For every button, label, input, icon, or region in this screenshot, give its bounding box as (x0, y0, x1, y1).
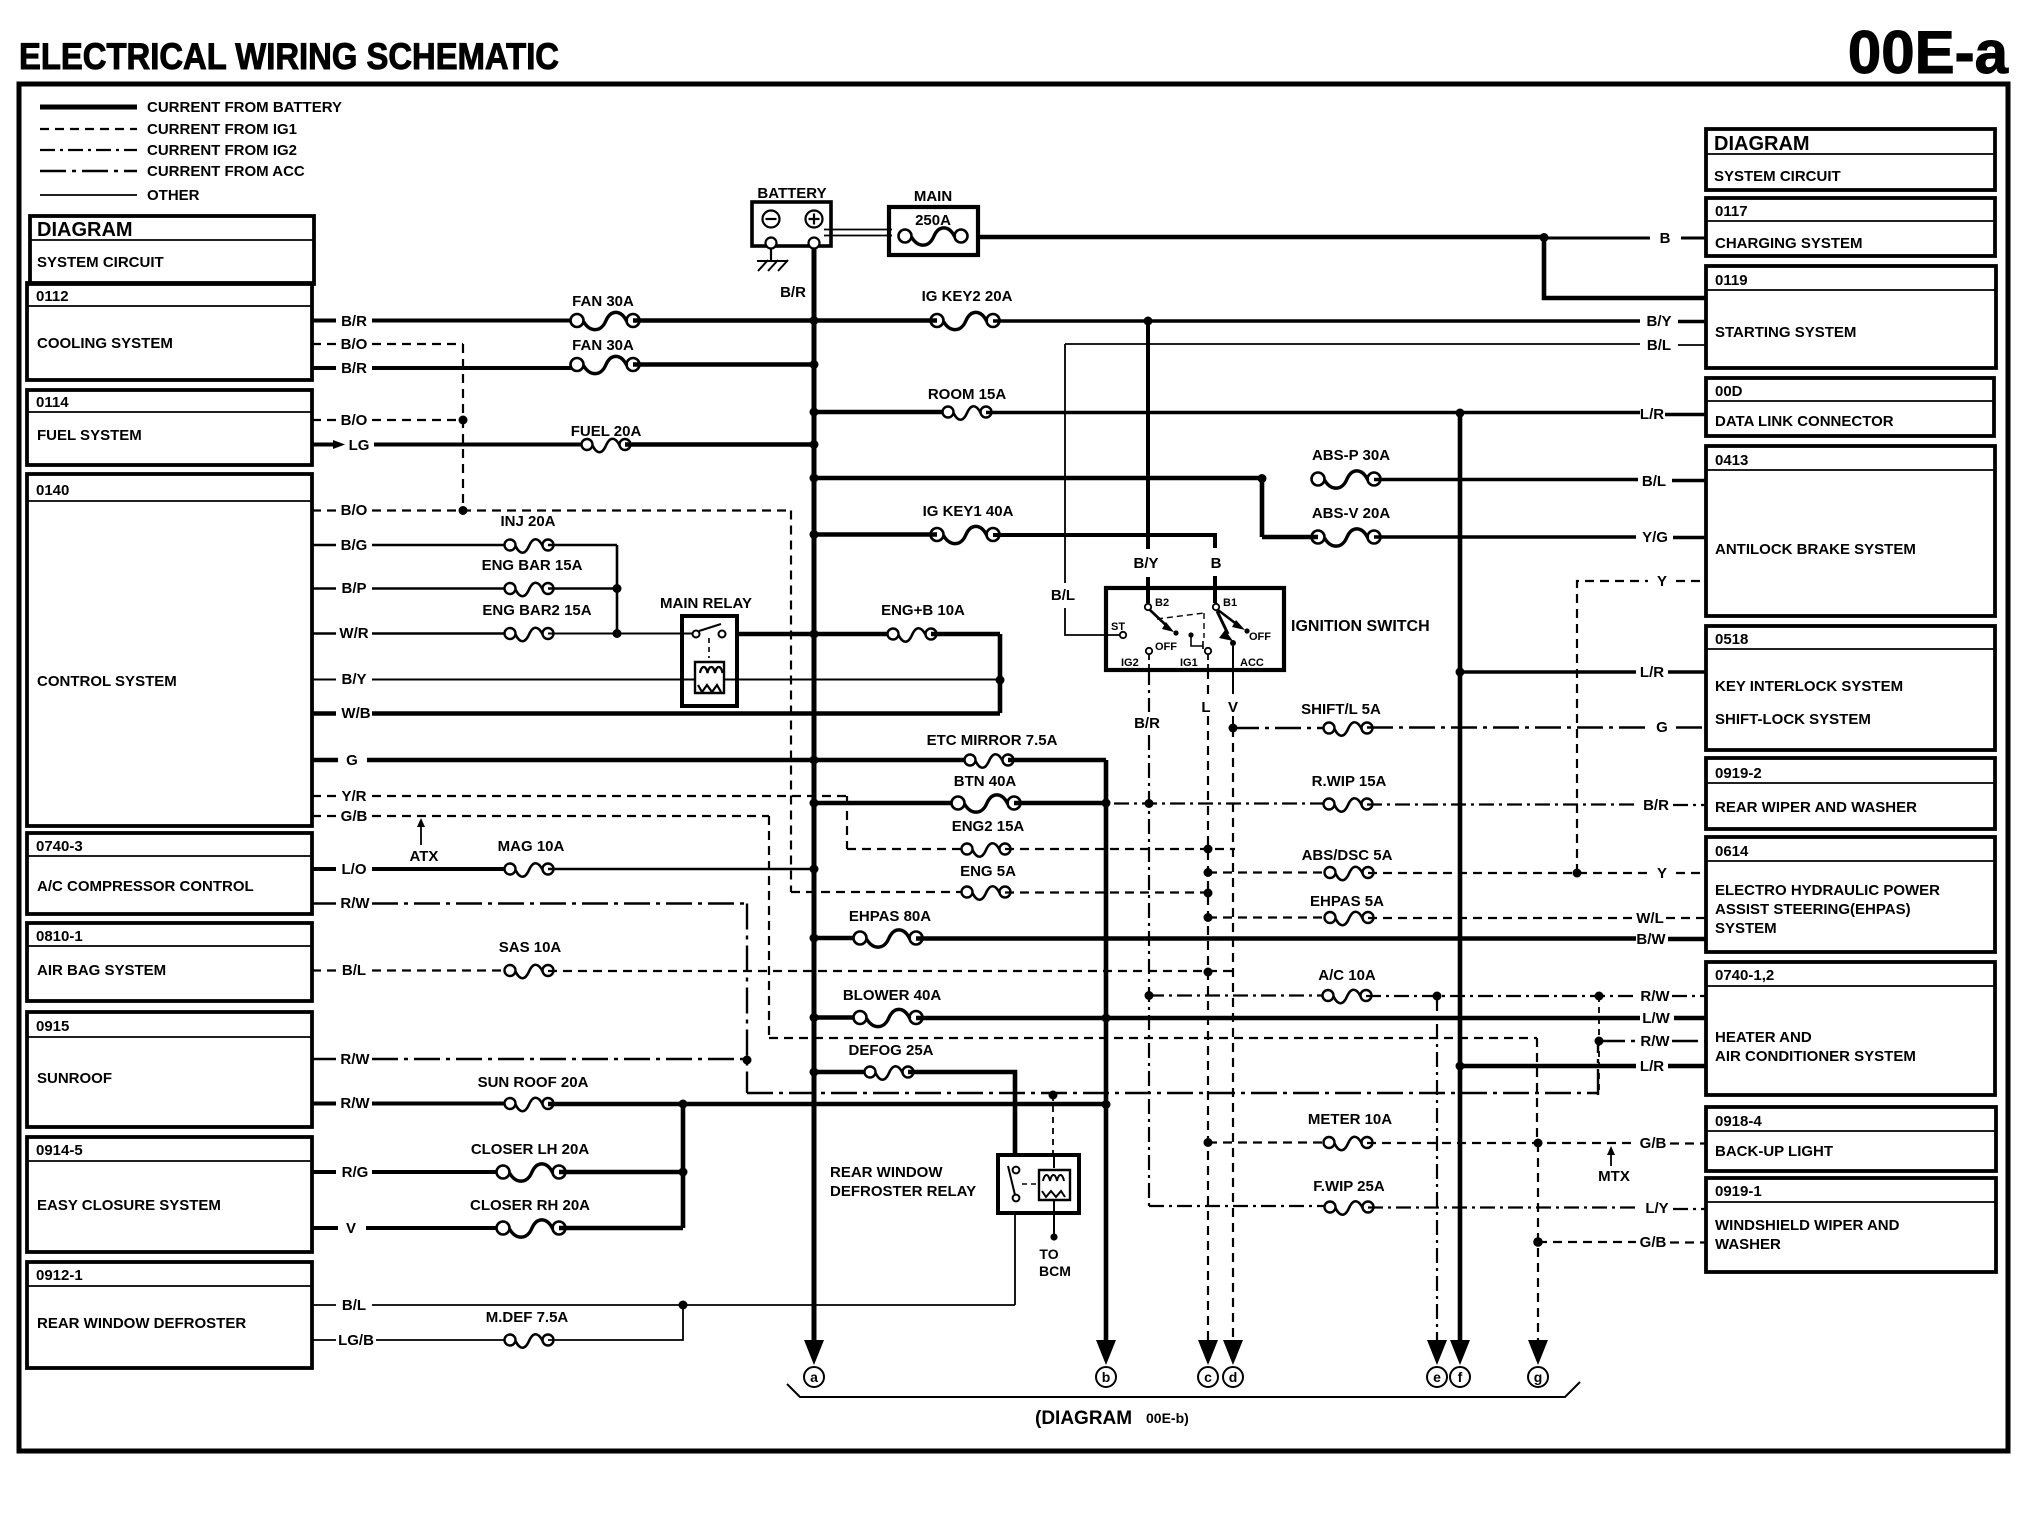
wire B/O dashed vertical link (462, 344, 464, 510)
battery (752, 185, 831, 249)
legend text (147, 99, 342, 204)
legend line: other (40, 194, 137, 196)
svg-text:B/W: B/W (1636, 931, 1666, 948)
svg-text:SYSTEM CIRCUIT: SYSTEM CIRCUIT (37, 254, 164, 271)
arrow a (804, 1340, 824, 1387)
svg-text:B/L: B/L (342, 962, 366, 979)
wire B/L vertical to ignition ST (1065, 344, 1120, 635)
wire B/O dashed vertical to ENG 5A (790, 511, 792, 893)
wire BLOWER 40A feed (814, 1015, 860, 1020)
wire W/L to ehpas system (1368, 917, 1707, 919)
svg-text:G/B: G/B (1640, 1135, 1667, 1152)
svg-text:MAG 10A: MAG 10A (498, 838, 565, 855)
svg-text:EHPAS 5A: EHPAS 5A (1310, 893, 1384, 910)
svg-text:ROOM 15A: ROOM 15A (928, 386, 1007, 403)
svg-text:0919-1: 0919-1 (1715, 1183, 1762, 1200)
svg-text:REAR WINDOW: REAR WINDOW (830, 1164, 943, 1181)
svg-text:CHARGING SYSTEM: CHARGING SYSTEM (1715, 235, 1863, 252)
svg-text:R/W: R/W (340, 1095, 370, 1112)
node junction ig key1 / battery (810, 530, 819, 539)
svg-text:Y/R: Y/R (341, 788, 366, 805)
node junction abs-p / abs-v (1258, 474, 1267, 483)
svg-text:ENG 5A: ENG 5A (960, 863, 1016, 880)
svg-text:0740-3: 0740-3 (36, 838, 83, 855)
wire R/G closer lh (312, 1170, 505, 1174)
svg-text:0140: 0140 (36, 482, 69, 499)
box 00D DATA LINK CONNECTOR (1706, 378, 1994, 436)
svg-text:SYSTEM: SYSTEM (1715, 920, 1777, 937)
svg-text:R/W: R/W (340, 1051, 370, 1068)
svg-text:CONTROL SYSTEM: CONTROL SYSTEM (37, 673, 177, 690)
svg-text:IG1: IG1 (1180, 657, 1198, 669)
node junction relay output / battery (810, 630, 819, 639)
svg-text:TO: TO (1039, 1246, 1058, 1262)
relay MAIN RELAY (660, 595, 752, 706)
svg-text:DIAGRAM: DIAGRAM (37, 219, 133, 241)
svg-text:B/G: B/G (341, 537, 368, 554)
wire R/W second to heater system (1599, 1040, 1707, 1042)
svg-text:B/L: B/L (342, 1297, 366, 1314)
node junction mdef riser (679, 1301, 688, 1310)
fuse MAIN 250A (889, 188, 978, 255)
node junction a/c / ig2 (1145, 991, 1154, 1000)
svg-text:c: c (1204, 1369, 1212, 1385)
box 0915 SUNROOF (27, 1012, 312, 1127)
wire B branch corner into starting system (1544, 238, 1707, 298)
wire B/L rear defroster (312, 1304, 1015, 1306)
node junction r/w second (1595, 1037, 1604, 1046)
wire BTN feed (814, 801, 960, 806)
node junction ehpas80/battery (810, 934, 819, 943)
svg-text:L/O: L/O (342, 861, 367, 878)
legend line: current from ACC (40, 170, 137, 172)
svg-text:MAIN: MAIN (914, 188, 952, 205)
wire L ig1 dashed vertical to arrow c (1207, 670, 1209, 694)
arrow f (1450, 1340, 1470, 1387)
node junction MAG / battery (810, 865, 819, 874)
svg-text:a: a (810, 1369, 818, 1385)
box DIAGRAM / SYSTEM CIRCUIT (left) (30, 216, 314, 284)
svg-text:L: L (1201, 699, 1210, 716)
wire R/W sunroof dash-dot (312, 1058, 747, 1060)
node junction fuel/battery (810, 440, 819, 449)
box 0117 CHARGING SYSTEM (1706, 198, 1995, 256)
svg-text:FUEL 20A: FUEL 20A (571, 423, 642, 440)
svg-text:Y/G: Y/G (1642, 529, 1668, 546)
wire V acc vertical to arrow d (1232, 670, 1234, 694)
wire B/Y ig key2 output to starting system (993, 319, 1707, 323)
box 0114 FUEL SYSTEM (27, 390, 312, 465)
svg-text:SHIFT-LOCK SYSTEM: SHIFT-LOCK SYSTEM (1715, 711, 1871, 728)
svg-text:FUEL SYSTEM: FUEL SYSTEM (37, 427, 142, 444)
node junction eng bar2 (613, 629, 622, 638)
svg-text:B/O: B/O (341, 502, 368, 519)
svg-text:HEATER AND: HEATER AND (1715, 1029, 1812, 1046)
wire R/W riser (746, 904, 748, 1094)
node B/O junction 1 (459, 416, 468, 425)
svg-text:0112: 0112 (36, 288, 69, 305)
left column system boxes (27, 216, 314, 1368)
node junction eng5 / ig1 (1204, 889, 1213, 898)
wire W/B (312, 711, 1000, 716)
svg-text:CLOSER RH 20A: CLOSER RH 20A (470, 1197, 590, 1214)
svg-text:W/R: W/R (339, 625, 368, 642)
svg-text:SAS 10A: SAS 10A (499, 939, 562, 956)
node junction fan1/battery (810, 316, 819, 325)
legend line: current from IG2 (40, 149, 137, 151)
wire L/O to MAG fuse (312, 867, 510, 871)
box 0518 KEY INTERLOCK / SHIFT-LOCK (1706, 626, 1995, 750)
node junction l/r heater (1456, 1062, 1465, 1071)
node junction meter / ig1 (1204, 1138, 1213, 1147)
svg-text:CLOSER LH 20A: CLOSER LH 20A (471, 1141, 590, 1158)
node junction y riser (1573, 869, 1582, 878)
svg-text:B/R: B/R (1134, 715, 1160, 732)
svg-text:LG: LG (349, 437, 370, 454)
node junction blower / b vertical (1102, 1014, 1111, 1023)
svg-text:METER 10A: METER 10A (1308, 1111, 1392, 1128)
wire B/O fuel dashed (312, 419, 463, 421)
svg-text:L/Y: L/Y (1645, 1200, 1668, 1217)
svg-text:B/L: B/L (1642, 473, 1666, 490)
svg-text:V: V (346, 1220, 356, 1237)
wire R/W acc run to right (747, 1092, 1598, 1095)
svg-text:STARTING SYSTEM: STARTING SYSTEM (1715, 324, 1856, 341)
wire B ig key1 output corner to ignition B1 (993, 535, 1215, 603)
wire B/R ig2 dash-dot vertical (1148, 670, 1150, 712)
svg-text:ABS-P 30A: ABS-P 30A (1312, 447, 1390, 464)
svg-text:ELECTRO HYDRAULIC POWER: ELECTRO HYDRAULIC POWER (1715, 882, 1940, 899)
MTX annotation arrow (1598, 1146, 1630, 1185)
svg-text:L/R: L/R (1640, 664, 1664, 681)
box 0919-2 REAR WIPER AND WASHER (1706, 758, 1995, 829)
svg-text:b: b (1102, 1369, 1111, 1385)
node junction room/battery (810, 408, 819, 417)
box DIAGRAM / SYSTEM CIRCUIT (right) (1706, 129, 1995, 190)
wire EHPAS 80A feed (814, 936, 860, 941)
node junction coil return (996, 676, 1005, 685)
node junction G line / battery vertical (810, 756, 819, 765)
svg-text:G: G (1656, 719, 1668, 736)
box 0919-1 WINDSHIELD WIPER AND WASHER (1706, 1178, 1996, 1272)
svg-text:IG KEY1 40A: IG KEY1 40A (923, 503, 1014, 520)
svg-text:g: g (1534, 1369, 1543, 1385)
node junction sunroof to b line (1102, 1100, 1111, 1109)
wire B label stub to charging system (1544, 237, 1707, 240)
wire L/R to heater system (1460, 1064, 1707, 1069)
arrow b (1096, 1340, 1116, 1387)
wire coil to junction (725, 679, 1000, 681)
svg-text:FAN 30A: FAN 30A (572, 337, 634, 354)
wire Y to ehpas system (1368, 872, 1707, 874)
wire closer riser vertical (681, 1104, 686, 1228)
svg-text:REAR WINDOW DEFROSTER: REAR WINDOW DEFROSTER (37, 1315, 246, 1332)
wire L/R heavy vertical to arrow f (1458, 413, 1463, 1348)
wire LG/B to M.DEF fuse (312, 1339, 510, 1341)
wire G/B dashed with ATX arrow (312, 815, 769, 817)
node junction r/w riser top (1595, 992, 1604, 1001)
wire B/W to ehpas system (916, 936, 1707, 941)
svg-text:B/R: B/R (1643, 797, 1669, 814)
svg-text:R/G: R/G (342, 1164, 369, 1181)
wire ENG 5A dashed run (791, 891, 967, 893)
wire L/R to key interlock system (1460, 670, 1707, 673)
node junction g/b windshield (1533, 1237, 1543, 1247)
wire G/B riser down (768, 816, 770, 1038)
svg-text:B/R: B/R (780, 284, 806, 301)
svg-text:Y: Y (1657, 573, 1667, 590)
svg-text:MAIN RELAY: MAIN RELAY (660, 595, 752, 612)
arrow d (1223, 1340, 1243, 1387)
relay REAR WINDOW DEFROSTER RELAY (830, 1155, 1079, 1279)
svg-text:DATA LINK CONNECTOR: DATA LINK CONNECTOR (1715, 413, 1894, 430)
svg-text:0518: 0518 (1715, 631, 1748, 648)
node junction closer lh (679, 1168, 688, 1177)
svg-text:BTN 40A: BTN 40A (954, 773, 1017, 790)
svg-text:BATTERY: BATTERY (757, 185, 826, 202)
svg-text:ETC MIRROR 7.5A: ETC MIRROR 7.5A (927, 732, 1058, 749)
svg-text:0413: 0413 (1715, 452, 1748, 469)
svg-text:ENG2 15A: ENG2 15A (952, 818, 1025, 835)
svg-text:ENG BAR2 15A: ENG BAR2 15A (482, 602, 591, 619)
svg-text:B: B (1211, 555, 1222, 572)
node junction btn/battery (810, 799, 819, 808)
wire L/R room output to data link connector (986, 413, 1707, 415)
svg-text:ABS/DSC 5A: ABS/DSC 5A (1302, 847, 1393, 864)
svg-text:F.WIP 25A: F.WIP 25A (1313, 1178, 1385, 1195)
svg-text:MTX: MTX (1598, 1168, 1630, 1185)
svg-text:0614: 0614 (1715, 843, 1749, 860)
wire Y/G to antilock brake system (1374, 535, 1707, 539)
node B/O junction 2 (459, 506, 468, 515)
wire B/R cooling fan 1 (312, 319, 573, 323)
arrow g (1528, 1340, 1548, 1387)
svg-text:ST: ST (1111, 621, 1125, 633)
node junction abs feed / battery (810, 474, 819, 483)
wire G/B dashed vertical to arrow g (1537, 1038, 1538, 1348)
svg-text:B/Y: B/Y (1133, 555, 1158, 572)
svg-text:OFF: OFF (1249, 631, 1271, 643)
wire B/R cooling fan 2 (312, 366, 573, 370)
svg-text:FAN 30A: FAN 30A (572, 293, 634, 310)
svg-text:B: B (1660, 230, 1671, 247)
node junction B/Y vertical (1144, 317, 1153, 326)
svg-text:B/Y: B/Y (1646, 313, 1671, 330)
wire heavy vertical to arrow b (1104, 760, 1109, 1348)
node junction btn / b vertical (1102, 799, 1111, 808)
legend line: current from IG1 (40, 128, 137, 130)
box 0918-4 BACK-UP LIGHT (1706, 1107, 1996, 1171)
arrow c (1198, 1340, 1218, 1387)
wire coil riser dashed to acc line (1052, 1095, 1054, 1155)
wire L/W to heater system (916, 1016, 1707, 1021)
svg-text:ATX: ATX (410, 848, 439, 865)
svg-text:SUNROOF: SUNROOF (37, 1070, 112, 1087)
node junction defog/battery (810, 1068, 819, 1077)
arrow e (1427, 1340, 1447, 1387)
svg-text:00E-a: 00E-a (1848, 19, 2009, 86)
svg-text:0915: 0915 (36, 1018, 69, 1035)
svg-text:B2: B2 (1155, 597, 1169, 609)
svg-text:L/R: L/R (1640, 1058, 1664, 1075)
node junction r.wip / ig2 (1145, 799, 1154, 808)
wire dash-dot vertical to arrow e (1436, 996, 1438, 1348)
wire r/w riser dashed (1598, 996, 1600, 1095)
svg-text:SUN ROOF 20A: SUN ROOF 20A (478, 1074, 589, 1091)
wire B/R to rear wiper and washer (1367, 803, 1707, 806)
svg-text:00E-b): 00E-b) (1146, 1410, 1189, 1426)
svg-text:e: e (1433, 1369, 1441, 1385)
right column system boxes (1706, 129, 1996, 1272)
svg-text:R/W: R/W (1640, 988, 1670, 1005)
wire ENG2 dashed run (847, 848, 967, 850)
node B junction (1540, 233, 1549, 242)
svg-text:COOLING SYSTEM: COOLING SYSTEM (37, 335, 173, 352)
node junction eng2 / ig1 (1204, 845, 1213, 854)
node junction L/R vertical (1456, 409, 1465, 418)
box 0413 ANTILOCK BRAKE SYSTEM (1706, 446, 1995, 616)
wire B from MAIN to charging junction (978, 235, 1544, 240)
node junction blower/battery (810, 1013, 819, 1022)
box 0112 COOLING SYSTEM (27, 283, 312, 380)
wire G/B horizontal run to right (769, 1037, 1537, 1039)
svg-text:ACC: ACC (1240, 657, 1264, 669)
wire V closer rh (312, 1226, 505, 1230)
wire ABS feed (814, 476, 1262, 481)
svg-text:ASSIST STEERING(EHPAS): ASSIST STEERING(EHPAS) (1715, 901, 1911, 918)
wire abs branch vertical (1260, 479, 1265, 538)
ground (757, 249, 788, 272)
svg-text:G/B: G/B (341, 808, 368, 825)
wire R/W sun roof feed (312, 1102, 510, 1106)
svg-text:CURRENT FROM ACC: CURRENT FROM ACC (147, 163, 305, 180)
wire Y dashed riser to antilock (1577, 581, 1707, 873)
svg-text:B/R: B/R (341, 313, 367, 330)
svg-text:AIR CONDITIONER SYSTEM: AIR CONDITIONER SYSTEM (1715, 1048, 1916, 1065)
svg-text:ANTILOCK BRAKE SYSTEM: ANTILOCK BRAKE SYSTEM (1715, 541, 1916, 558)
svg-text:G/B: G/B (1640, 1234, 1667, 1251)
svg-text:IG KEY2 20A: IG KEY2 20A (922, 288, 1013, 305)
switch IGNITION SWITCH (1106, 588, 1430, 670)
svg-text:A/C 10A: A/C 10A (1318, 967, 1376, 984)
svg-text:AIR BAG SYSTEM: AIR BAG SYSTEM (37, 962, 166, 979)
wire LG fuel (312, 443, 587, 447)
svg-text:IGNITION SWITCH: IGNITION SWITCH (1291, 618, 1430, 635)
svg-text:B/L: B/L (1647, 337, 1671, 354)
svg-text:BCM: BCM (1039, 1263, 1071, 1279)
wire W/R (312, 632, 510, 635)
svg-text:ELECTRICAL WIRING SCHEMATIC: ELECTRICAL WIRING SCHEMATIC (19, 36, 559, 77)
svg-text:R/W: R/W (340, 895, 370, 912)
ATX annotation arrow (410, 818, 439, 865)
wire G/B to windshield washer (1538, 1241, 1707, 1244)
svg-text:0114: 0114 (36, 394, 69, 411)
box 0140 CONTROL SYSTEM (27, 474, 312, 826)
svg-text:OFF: OFF (1155, 641, 1177, 653)
svg-text:0918-4: 0918-4 (1715, 1113, 1762, 1130)
svg-text:WASHER: WASHER (1715, 1236, 1781, 1253)
svg-text:0117: 0117 (1715, 203, 1748, 220)
wire B/G (312, 544, 510, 547)
wire G/B to back-up light (1367, 1142, 1707, 1145)
svg-text:B1: B1 (1223, 597, 1237, 609)
svg-text:ENG+B 10A: ENG+B 10A (881, 602, 965, 619)
wire R/W a/c compressor dash-dot (312, 902, 747, 904)
box 0740-3 A/C COMPRESSOR CONTROL (27, 833, 312, 914)
svg-text:Y: Y (1657, 865, 1667, 882)
node junction acc / coil riser (1049, 1091, 1058, 1100)
box 0810-1 AIR BAG SYSTEM (27, 923, 312, 1001)
svg-text:L/R: L/R (1640, 406, 1664, 423)
svg-text:WINDSHIELD WIPER AND: WINDSHIELD WIPER AND (1715, 1217, 1900, 1234)
legend line: current from battery (40, 105, 137, 110)
wire dash-dot btn to r.wip (1114, 802, 1329, 804)
wire INJ output vertical (616, 545, 619, 634)
wire R/W to heater system (1366, 995, 1707, 997)
wire ENG+B output vertical (998, 634, 1003, 713)
wire W/R relay output to ENG+B (737, 632, 893, 637)
svg-text:R/W: R/W (1640, 1033, 1670, 1050)
svg-text:G: G (346, 752, 358, 769)
svg-text:0912-1: 0912-1 (36, 1267, 83, 1284)
svg-text:0810-1: 0810-1 (36, 928, 83, 945)
svg-text:M.DEF 7.5A: M.DEF 7.5A (486, 1309, 569, 1326)
wire Y/R dashed (312, 795, 847, 797)
svg-text:KEY INTERLOCK SYSTEM: KEY INTERLOCK SYSTEM (1715, 678, 1903, 695)
wire B/L air bag dashed (312, 969, 510, 971)
svg-text:B/O: B/O (341, 412, 368, 429)
svg-text:B/R: B/R (341, 360, 367, 377)
svg-text:DIAGRAM: DIAGRAM (1714, 133, 1810, 155)
node junction R/W (743, 1056, 752, 1065)
wire riser to defroster relay switch (1014, 1213, 1016, 1305)
svg-text:IG2: IG2 (1121, 657, 1139, 669)
box 0914-5 EASY CLOSURE SYSTEM (27, 1137, 312, 1252)
box 0912-1 REAR WINDOW DEFROSTER (27, 1262, 312, 1368)
node junction l/r key interlock (1456, 668, 1465, 677)
wire Y/R riser to ENG2 (846, 796, 848, 849)
wire B/P (312, 587, 510, 590)
wire B/Y vertical to ignition B2 (1146, 321, 1150, 603)
box 0119 STARTING SYSTEM (1706, 266, 1996, 368)
svg-text:0914-5: 0914-5 (36, 1142, 83, 1159)
svg-text:(DIAGRAM: (DIAGRAM (1035, 1408, 1132, 1429)
wire B/L to antilock brake system (1374, 480, 1707, 481)
svg-text:V: V (1228, 699, 1238, 716)
wire G to shift-lock system (1367, 726, 1707, 728)
svg-text:B/P: B/P (341, 580, 366, 597)
wire ROOM 15A feed (814, 410, 948, 415)
node junction fan2/battery (810, 360, 819, 369)
wire B/Y to relay coil (312, 679, 694, 681)
svg-text:EHPAS 80A: EHPAS 80A (849, 908, 931, 925)
wire G to ETC MIRROR fuse (312, 758, 970, 763)
node junction g/b riser (1534, 1139, 1543, 1148)
svg-text:R.WIP 15A: R.WIP 15A (1312, 773, 1387, 790)
svg-text:A/C COMPRESSOR CONTROL: A/C COMPRESSOR CONTROL (37, 878, 254, 895)
svg-text:ABS-V 20A: ABS-V 20A (1312, 505, 1391, 522)
svg-text:DEFROSTER RELAY: DEFROSTER RELAY (830, 1183, 976, 1200)
box 0614 EHPAS SYSTEM (1706, 837, 1995, 952)
svg-text:f: f (1458, 1369, 1463, 1385)
wire acc elbow up (1597, 1041, 1599, 1095)
svg-text:REAR WIPER AND WASHER: REAR WIPER AND WASHER (1715, 799, 1917, 816)
svg-text:SYSTEM CIRCUIT: SYSTEM CIRCUIT (1714, 168, 1841, 185)
node junction ehpas5 / ig1 (1204, 913, 1213, 922)
svg-text:CURRENT FROM IG2: CURRENT FROM IG2 (147, 142, 297, 159)
wire B/R battery main vertical (812, 249, 817, 1349)
wire L/Y to windshield wiper (1368, 1208, 1707, 1210)
